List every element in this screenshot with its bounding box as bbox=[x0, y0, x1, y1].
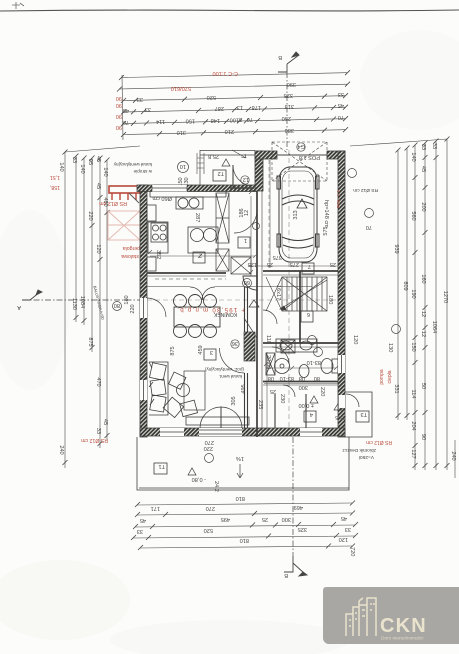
svg-text:C-C 1:100: C-C 1:100 bbox=[213, 70, 239, 76]
svg-text:220: 220 bbox=[319, 387, 325, 396]
svg-text:33: 33 bbox=[338, 91, 344, 97]
svg-text:120: 120 bbox=[339, 536, 348, 542]
svg-text:33: 33 bbox=[71, 157, 77, 163]
svg-text:331: 331 bbox=[393, 384, 399, 393]
svg-text:24,2: 24,2 bbox=[213, 481, 219, 492]
svg-text:T2: T2 bbox=[217, 170, 224, 176]
svg-text:90: 90 bbox=[420, 434, 426, 440]
svg-text:300: 300 bbox=[282, 516, 291, 522]
svg-text:33: 33 bbox=[137, 528, 143, 534]
svg-text:495: 495 bbox=[221, 516, 230, 522]
svg-text:45: 45 bbox=[341, 515, 347, 521]
svg-text:2: 2 bbox=[199, 252, 202, 258]
svg-text:36: 36 bbox=[232, 340, 238, 346]
svg-text:1%: 1% bbox=[236, 455, 244, 461]
svg-text:200: 200 bbox=[420, 202, 426, 211]
bidet bbox=[299, 365, 309, 378]
svg-text:459: 459 bbox=[198, 345, 204, 354]
top dim numbers (upside down) bbox=[116, 70, 344, 135]
TV cabinet bbox=[186, 417, 249, 425]
svg-text:33: 33 bbox=[95, 428, 101, 434]
svg-text:875: 875 bbox=[170, 346, 176, 355]
svg-text:kanał wentylacyjny: kanał wentylacyjny bbox=[113, 162, 152, 167]
svg-text:1064: 1064 bbox=[431, 321, 437, 333]
circled markers left bbox=[113, 302, 122, 311]
svg-text:250: 250 bbox=[282, 115, 291, 121]
svg-text:114: 114 bbox=[410, 390, 416, 399]
svg-text:T3: T3 bbox=[360, 411, 367, 417]
svg-text:178: 178 bbox=[252, 104, 261, 110]
svg-text:RS Ø12 cm: RS Ø12 cm bbox=[99, 200, 127, 206]
svg-text:1270: 1270 bbox=[442, 291, 448, 303]
svg-text:810: 810 bbox=[236, 495, 245, 501]
svg-text:120: 120 bbox=[95, 244, 101, 253]
svg-text:127: 127 bbox=[410, 449, 416, 458]
svg-text:390: 390 bbox=[287, 81, 296, 87]
interior door arcs bbox=[147, 298, 359, 407]
svg-text:939: 939 bbox=[393, 244, 399, 253]
garage left wall upper bbox=[255, 151, 263, 191]
room box 1 bbox=[238, 237, 250, 248]
section marker A left bbox=[22, 290, 42, 300]
wc small marks bbox=[334, 402, 344, 410]
svg-text:380: 380 bbox=[285, 127, 294, 133]
svg-text:100: 100 bbox=[230, 117, 239, 123]
svg-text:305: 305 bbox=[231, 396, 237, 405]
garage top wall left stub bbox=[255, 151, 277, 159]
section line B through plan bbox=[288, 150, 290, 437]
svg-text:70: 70 bbox=[366, 224, 372, 230]
entry porch lines bbox=[200, 150, 255, 185]
svg-text:33: 33 bbox=[431, 143, 437, 149]
svg-text:pompa: pompa bbox=[379, 369, 385, 385]
svg-text:575: 575 bbox=[323, 226, 329, 235]
T3 box bbox=[356, 411, 369, 422]
svg-text:560: 560 bbox=[410, 211, 416, 220]
svg-text:6: 6 bbox=[307, 311, 310, 317]
svg-text:33: 33 bbox=[145, 106, 151, 112]
KOMINEK fireplace (corner) bbox=[243, 276, 257, 290]
svg-text:ciepła: ciepła bbox=[387, 370, 393, 383]
svg-text:83-10: 83-10 bbox=[280, 375, 294, 381]
svg-text:25: 25 bbox=[330, 261, 336, 267]
svg-text:80: 80 bbox=[314, 375, 320, 381]
svg-text:45: 45 bbox=[338, 102, 344, 108]
car body bbox=[277, 167, 319, 262]
right exterior wall bbox=[338, 151, 345, 437]
svg-text:CKN: CKN bbox=[380, 615, 427, 637]
level marker terrace bbox=[188, 468, 196, 475]
svg-text:45: 45 bbox=[123, 107, 129, 113]
svg-text:stalowa: stalowa bbox=[121, 253, 139, 259]
svg-text:140: 140 bbox=[410, 152, 416, 161]
car direction arrow bbox=[297, 199, 307, 208]
svg-text:A: A bbox=[17, 304, 21, 310]
svg-text:08: 08 bbox=[299, 375, 305, 381]
svg-text:83-10: 83-10 bbox=[307, 359, 321, 365]
garage door dashed swing bbox=[272, 142, 327, 181]
svg-text:809: 809 bbox=[402, 281, 408, 290]
svg-text:33: 33 bbox=[345, 526, 351, 532]
left exterior wall bbox=[140, 185, 147, 437]
svg-text:140: 140 bbox=[58, 162, 64, 171]
svg-text:KOMINEK: KOMINEK bbox=[213, 311, 237, 317]
corridor walls bbox=[275, 394, 306, 428]
svg-text:BALUSTRADA h=90: BALUSTRADA h=90 bbox=[92, 286, 104, 321]
svg-text:25,5: 25,5 bbox=[335, 414, 346, 420]
bottom exterior wall bbox=[140, 428, 345, 436]
interior dim chains bbox=[148, 160, 338, 430]
svg-text:B: B bbox=[284, 572, 288, 578]
svg-text:95: 95 bbox=[87, 159, 93, 165]
svg-text:8: 8 bbox=[239, 116, 242, 122]
svg-text:180: 180 bbox=[124, 295, 130, 304]
svg-text:375: 375 bbox=[273, 254, 282, 260]
svg-text:300: 300 bbox=[299, 384, 308, 390]
svg-text:25: 25 bbox=[267, 261, 273, 267]
windows in walls (thin white gaps with lines) bbox=[140, 185, 345, 436]
svg-text:110: 110 bbox=[265, 335, 271, 344]
faint pergola roof outline bbox=[108, 211, 140, 240]
svg-text:12: 12 bbox=[420, 331, 426, 337]
big terrace bbox=[137, 437, 349, 490]
svg-text:33: 33 bbox=[420, 144, 426, 150]
buildings icon bbox=[346, 598, 376, 636]
svg-text:3: 3 bbox=[210, 349, 213, 355]
room box 7 bbox=[302, 263, 314, 274]
T2 box bbox=[213, 170, 226, 181]
svg-text:60: 60 bbox=[244, 279, 250, 285]
svg-text:352: 352 bbox=[155, 250, 161, 259]
svg-text:220: 220 bbox=[87, 211, 93, 220]
svg-text:(poz. wentylacyjny): (poz. wentylacyjny) bbox=[204, 367, 244, 372]
top exterior wall bbox=[137, 185, 257, 192]
svg-text:25,8: 25,8 bbox=[208, 153, 219, 159]
svg-text:325: 325 bbox=[298, 526, 307, 532]
svg-text:RS Ø12 cm: RS Ø12 cm bbox=[81, 437, 108, 443]
room box 3 bbox=[204, 349, 216, 360]
svg-text:70: 70 bbox=[123, 119, 129, 125]
room box 6 bbox=[301, 311, 313, 322]
svg-text:148: 148 bbox=[211, 117, 220, 123]
svg-text:Dom nieruchomości: Dom nieruchomości bbox=[381, 636, 423, 642]
svg-text:33: 33 bbox=[137, 96, 143, 102]
svg-text:13: 13 bbox=[237, 104, 243, 110]
svg-text:POŁ. 1:1: POŁ. 1:1 bbox=[336, 189, 341, 208]
svg-text:220: 220 bbox=[130, 304, 136, 313]
toilet at right wall bbox=[321, 359, 333, 374]
svg-text:20-60: 20-60 bbox=[265, 355, 271, 369]
porch steps bbox=[197, 150, 246, 174]
svg-text:210: 210 bbox=[225, 128, 234, 134]
wall living/hall bbox=[245, 287, 248, 428]
svg-text:190: 190 bbox=[410, 289, 416, 298]
svg-text:G4: G4 bbox=[298, 143, 305, 149]
svg-text:469: 469 bbox=[294, 504, 303, 510]
svg-text:313: 313 bbox=[293, 210, 299, 219]
svg-text:287: 287 bbox=[194, 213, 200, 222]
entry level triangle bbox=[222, 159, 230, 166]
svg-text:RS Ø12 cm: RS Ø12 cm bbox=[366, 439, 392, 445]
svg-text:875: 875 bbox=[87, 337, 93, 346]
dim chain under bath bbox=[264, 383, 338, 385]
thin interior double lines bbox=[147, 191, 338, 437]
svg-text:495: 495 bbox=[241, 384, 247, 393]
right terrace bbox=[345, 392, 372, 437]
bath/hall wall bbox=[263, 381, 338, 383]
svg-text:45: 45 bbox=[420, 166, 426, 172]
svg-text:1: 1 bbox=[244, 237, 247, 243]
svg-text:90: 90 bbox=[116, 113, 122, 119]
svg-text:12: 12 bbox=[244, 210, 250, 216]
circled markers right bbox=[348, 169, 357, 178]
svg-text:310: 310 bbox=[177, 129, 186, 135]
svg-text:12: 12 bbox=[243, 176, 249, 182]
svg-text:1130: 1130 bbox=[71, 298, 77, 310]
svg-text:470: 470 bbox=[95, 377, 101, 386]
svg-text:140: 140 bbox=[79, 164, 85, 173]
svg-text:180: 180 bbox=[327, 295, 333, 304]
round shower/basin bbox=[275, 359, 290, 374]
svg-text:114: 114 bbox=[156, 118, 165, 124]
svg-text:zbiornik Deszcz: zbiornik Deszcz bbox=[342, 447, 376, 453]
svg-text:POS 1:8: POS 1:8 bbox=[299, 154, 320, 160]
T1 box bbox=[154, 463, 167, 474]
svg-text:08: 08 bbox=[268, 375, 274, 381]
garage door opening line bbox=[277, 154, 327, 156]
french door bottom bbox=[200, 407, 242, 428]
svg-text:275: 275 bbox=[290, 261, 299, 267]
svg-text:45: 45 bbox=[95, 183, 101, 189]
svg-text:270: 270 bbox=[205, 439, 214, 445]
svg-text:520: 520 bbox=[207, 94, 216, 100]
svg-text:158,: 158, bbox=[50, 184, 60, 190]
washer X-box bbox=[281, 340, 295, 353]
svg-text:150: 150 bbox=[410, 342, 416, 351]
svg-text:T1: T1 bbox=[158, 463, 165, 469]
svg-text:45: 45 bbox=[140, 517, 146, 523]
svg-text:130: 130 bbox=[387, 343, 393, 352]
svg-text:235: 235 bbox=[257, 400, 263, 409]
corner registration mark bbox=[12, 2, 24, 9]
svg-text:25: 25 bbox=[270, 388, 276, 394]
svg-text:45: 45 bbox=[95, 156, 101, 162]
svg-text:B: B bbox=[278, 54, 282, 60]
entry door arc bbox=[233, 165, 251, 186]
svg-text:240: 240 bbox=[450, 451, 456, 460]
level 0.00 bbox=[310, 396, 318, 403]
top border line bbox=[0, 10, 459, 11]
svg-text:- 0,80: - 0,80 bbox=[192, 476, 206, 482]
red pergola structure bbox=[109, 186, 140, 203]
svg-text:hp=148 cm: hp=148 cm bbox=[323, 200, 329, 228]
svg-text:Ø60 cm: Ø60 cm bbox=[152, 195, 172, 201]
svg-text:70: 70 bbox=[338, 114, 344, 120]
garage top wall right stub bbox=[327, 151, 345, 159]
room box 4 bbox=[304, 411, 316, 422]
svg-text:570/610: 570/610 bbox=[171, 85, 191, 91]
svg-text:45: 45 bbox=[102, 419, 108, 425]
svg-text:kanał went.: kanał went. bbox=[219, 374, 242, 379]
svg-text:RS Ø12 cm: RS Ø12 cm bbox=[353, 187, 378, 193]
section marker B top bbox=[278, 52, 299, 72]
svg-text:50: 50 bbox=[420, 383, 426, 389]
svg-text:325: 325 bbox=[284, 92, 293, 98]
svg-text:220: 220 bbox=[204, 445, 213, 451]
svg-text:287: 287 bbox=[215, 105, 224, 111]
svg-text:w stropie: w stropie bbox=[133, 169, 152, 174]
svg-text:1,51: 1,51 bbox=[50, 174, 60, 180]
svg-text:90: 90 bbox=[116, 95, 122, 101]
hall wardrobe crosses bbox=[216, 193, 251, 274]
svg-text:140: 140 bbox=[102, 167, 108, 176]
section line B top (dash-dot) bbox=[286, 72, 288, 150]
garage interior dashed bbox=[268, 160, 270, 268]
svg-text:4: 4 bbox=[310, 411, 313, 417]
svg-text:1084: 1084 bbox=[79, 296, 85, 308]
svg-text:171: 171 bbox=[151, 505, 160, 511]
sink counter with two basins bbox=[276, 339, 317, 352]
svg-text:270: 270 bbox=[206, 505, 215, 511]
svg-text:160: 160 bbox=[420, 274, 426, 283]
svg-text:90: 90 bbox=[116, 124, 122, 130]
svg-text:pergola: pergola bbox=[123, 245, 140, 251]
svg-text:25: 25 bbox=[262, 516, 268, 522]
svg-text:230: 230 bbox=[279, 394, 285, 403]
tall cabinet left bbox=[266, 353, 275, 375]
room box 2 bbox=[193, 252, 205, 263]
svg-text:90: 90 bbox=[116, 102, 122, 108]
circled 10 + markers above kitchen bbox=[178, 162, 189, 173]
svg-text:150: 150 bbox=[186, 118, 195, 124]
svg-text:120: 120 bbox=[352, 335, 358, 344]
svg-text:V=250l: V=250l bbox=[359, 454, 374, 460]
svg-text:80: 80 bbox=[114, 302, 120, 308]
svg-text:125: 125 bbox=[248, 261, 257, 267]
section line A-A bbox=[22, 299, 140, 301]
svg-text:16x17: 16x17 bbox=[275, 285, 281, 300]
interior partition kitchen/living bbox=[147, 191, 338, 437]
svg-text:313: 313 bbox=[285, 103, 294, 109]
svg-text:204: 204 bbox=[410, 421, 416, 430]
svg-text:240: 240 bbox=[58, 445, 64, 454]
svg-text:12: 12 bbox=[420, 311, 426, 317]
svg-text:70: 70 bbox=[247, 116, 253, 122]
svg-text:720: 720 bbox=[349, 547, 355, 556]
svg-text:10: 10 bbox=[180, 163, 186, 169]
section marker B bottom bbox=[284, 556, 307, 576]
svg-text:810: 810 bbox=[240, 537, 249, 543]
svg-text:520: 520 bbox=[204, 527, 213, 533]
